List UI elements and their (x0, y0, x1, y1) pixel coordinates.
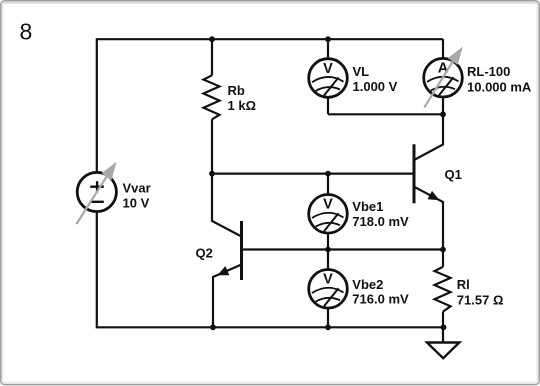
wire left rail lower (Vvar to bottom rail) (96, 212, 98, 329)
voltmeter Vbe1 718.0 mV (309, 195, 409, 234)
wire Rb top lead (211, 39, 213, 75)
junction node Rl top (440, 247, 446, 253)
svg-text:V: V (323, 197, 333, 213)
resistor Rb 1 kOhm (204, 75, 257, 119)
svg-text:Q1: Q1 (445, 167, 462, 182)
svg-text:VL: VL (353, 64, 370, 79)
transistor Q2 NPN (196, 221, 242, 280)
wire base rail to Q1 (212, 173, 414, 175)
wire top rail (97, 38, 443, 40)
wire Vbe1 bottom lead (327, 233, 329, 250)
wire Q1 collector (414, 114, 443, 160)
wire left rail upper (top rail to Vvar) (96, 38, 98, 173)
junction node Vbe2 bottom (325, 324, 331, 330)
svg-text:1.000 V: 1.000 V (353, 79, 398, 94)
junction node VL top (325, 36, 331, 42)
wire Q2 base to meters node (242, 248, 329, 250)
wire Rb bottom lead to node (211, 119, 213, 173)
wire VL bottom lead (327, 97, 329, 114)
svg-text:10 V: 10 V (123, 196, 150, 211)
svg-text:RL-100: RL-100 (467, 64, 510, 79)
svg-text:1 kΩ: 1 kΩ (228, 98, 257, 113)
voltage source Vvar 10 V (77, 162, 151, 224)
resistor Rl 71.57 Ohm (435, 267, 504, 312)
wire Q2 collector (212, 174, 242, 237)
wire meters node to Rl top (328, 248, 443, 250)
wire VL top lead (327, 39, 329, 59)
junction node ground (441, 324, 447, 330)
wire Q1 emitter to Rl (414, 187, 443, 250)
wire Q2 emitter to bottom rail (213, 265, 242, 328)
wire ammeter bottom lead (442, 97, 444, 115)
svg-text:71.57 Ω: 71.57 Ω (457, 293, 504, 308)
ammeter RL-100 10.000 mA (424, 47, 532, 108)
voltmeter VL 1.000 V (309, 59, 398, 98)
svg-text:Rb: Rb (228, 83, 245, 98)
wire ammeter top lead (442, 39, 444, 59)
junction node Vbe1 top (325, 171, 331, 177)
wire Vbe1 top lead (327, 174, 329, 195)
svg-text:V: V (323, 61, 333, 77)
svg-text:Vvar: Vvar (123, 181, 151, 196)
junction node Rb top (209, 36, 215, 42)
svg-text:8: 8 (20, 19, 33, 45)
wire Vbe2 bottom lead (327, 308, 329, 328)
wire Vbe2 top lead (327, 250, 329, 271)
wire VL to ammeter bottom (328, 113, 443, 115)
svg-text:10.000 mA: 10.000 mA (467, 79, 532, 94)
junction node Q2 emitter bottom (210, 324, 216, 330)
wire bottom rail (97, 326, 444, 328)
svg-text:Q2: Q2 (196, 246, 213, 261)
svg-text:Vbe2: Vbe2 (352, 277, 383, 292)
svg-text:718.0 mV: 718.0 mV (352, 214, 409, 229)
wire ground lead (442, 327, 444, 342)
ground (427, 343, 459, 359)
transistor Q1 NPN (414, 144, 462, 203)
page number 8 (20, 19, 33, 45)
voltmeter Vbe2 716.0 mV (309, 270, 409, 309)
junction node ammeter bottom (440, 111, 446, 117)
svg-text:Rl: Rl (457, 277, 470, 292)
wire Rl bottom lead (442, 312, 444, 328)
junction node Rb bottom / Q2 collector (209, 171, 215, 177)
svg-text:716.0 mV: 716.0 mV (352, 291, 409, 306)
wire Rl top lead (442, 250, 444, 267)
junction node Vbe1 bottom / Vbe2 top (325, 247, 331, 253)
svg-text:Vbe1: Vbe1 (352, 199, 383, 214)
svg-text:V: V (323, 272, 333, 288)
